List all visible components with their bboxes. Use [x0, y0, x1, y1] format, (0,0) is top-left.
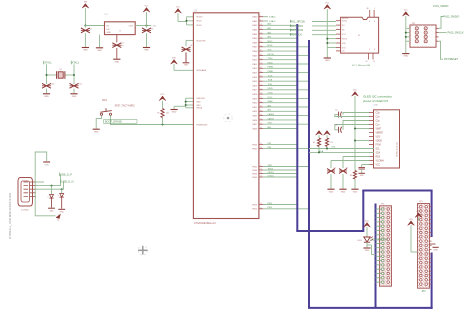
wire net label PA11_NPCS0	[290, 20, 336, 24]
svg-text:MISO: MISO	[268, 41, 273, 43]
power flag above R1	[159, 94, 166, 109]
svg-text:GND: GND	[114, 61, 119, 63]
wire OLED VBAT feed	[354, 128, 370, 130]
wire SDA to OLED	[309, 151, 374, 153]
junction USB D-	[61, 188, 63, 190]
svg-text:C4: C4	[190, 45, 192, 47]
wire VCC rail at OLED	[354, 96, 356, 170]
LED PWR	[358, 221, 374, 248]
JP3 right pin stubs	[422, 207, 432, 293]
svg-text:GND: GND	[83, 50, 88, 52]
svg-text:AD1: AD1	[268, 27, 272, 30]
wire JP1 to SWDIO label	[439, 16, 460, 29]
svg-text:C11: C11	[78, 84, 81, 86]
power flag at IC2	[324, 3, 331, 10]
USB pin stubs	[30, 182, 37, 196]
wire U1 pin row y=25.3 to bus	[263, 23, 297, 26]
net label XTAL2	[71, 61, 79, 65]
wire U1 pin row y=33.9 to bus	[263, 31, 297, 34]
wire net label PA12_MISO	[290, 24, 336, 28]
junction VDD 1	[186, 20, 188, 22]
wire U1 pin row y=29.6 to bus	[263, 27, 297, 30]
junction USB D+	[51, 185, 53, 187]
svg-text:POM: POM	[376, 144, 381, 146]
svg-text:GND: GND	[144, 50, 149, 52]
ground below SW1	[93, 129, 100, 133]
svg-text:VDDC: VDDC	[196, 21, 202, 23]
svg-text:USB_D_N: USB_D_N	[62, 180, 74, 184]
wire U1 pin row y=42.5 to bus	[263, 41, 297, 43]
ground below IC2 rail	[324, 58, 331, 62]
wire U1 group3 row 3	[263, 175, 297, 177]
wire U1 pin row y=81.2 to bus	[263, 79, 309, 82]
connector U30 label	[374, 105, 379, 107]
wire U1 pin row y=38.2 to bus	[263, 36, 297, 39]
svg-text:URXD1: URXD1	[268, 172, 274, 174]
wire XTAL1 drop	[46, 64, 48, 84]
U1 right pin names	[252, 16, 258, 211]
svg-text:XTAL2: XTAL2	[72, 61, 80, 64]
junction JP1 rail 1	[405, 32, 407, 34]
ground below C4	[183, 63, 190, 67]
svg-text:VCC: VCC	[365, 221, 370, 223]
switch SW1 labels	[102, 100, 135, 108]
resistor R1 pullup	[157, 109, 169, 118]
bus box right edge lower	[431, 253, 433, 309]
ground below regulator	[96, 48, 103, 52]
wire VDDANA to pin	[174, 64, 193, 70]
wire regulator GND lead	[99, 35, 101, 48]
wire U1 pin row y=85.5 to bus	[263, 84, 297, 86]
wire PB row 1 to bus1	[263, 143, 297, 145]
resistor R2 pullup SDA	[313, 131, 323, 153]
svg-text:9: 9	[369, 21, 370, 23]
svg-text:5: 5	[369, 49, 370, 51]
svg-text:VDDUTMI: VDDUTMI	[196, 40, 206, 42]
wire U1 pin row y=119.9 to bus	[263, 117, 297, 120]
svg-text:SDA: SDA	[376, 151, 381, 154]
capacitor C2 (tantalum at regulator)	[112, 35, 124, 59]
svg-text:UTXD1: UTXD1	[268, 175, 274, 177]
wire JP1 to SWCLK label	[439, 32, 465, 35]
svg-text:1: 1	[48, 197, 49, 199]
wire VIN to regulator IN	[85, 25, 104, 27]
svg-text:SI/IO0: SI/IO0	[342, 21, 347, 23]
svg-text:VCC: VCC	[161, 94, 166, 96]
svg-text:GND: GND	[72, 96, 77, 98]
svg-text:PWM1: PWM1	[268, 71, 274, 73]
svg-text:VCC: VCC	[404, 10, 409, 12]
wire U1 pin row y=51.1 to bus	[263, 50, 297, 52]
net label +3V3	[152, 26, 156, 28]
wire R1 to reset net	[162, 118, 164, 125]
svg-text:GND: GND	[403, 56, 408, 58]
net label SDA	[319, 150, 324, 153]
zener D1	[48, 186, 54, 208]
junction OUT node	[146, 25, 148, 27]
svg-text:GND: GND	[97, 50, 102, 52]
ground USB shield	[43, 162, 50, 167]
wire U1 group3 row 2	[263, 172, 297, 174]
svg-text:PA22_SWDIO: PA22_SWDIO	[444, 16, 460, 19]
svg-text:PA23_SWCLK: PA23_SWCLK	[448, 32, 465, 35]
svg-text:GND: GND	[365, 250, 370, 252]
zener D2	[58, 189, 64, 208]
svg-text:GND: GND	[353, 191, 358, 193]
ground below C14	[327, 189, 334, 193]
power flag at JP1	[402, 10, 409, 17]
svg-text:AD4: AD4	[268, 104, 272, 107]
wire U1 pin row y=46.8 to bus	[263, 45, 309, 47]
svg-text:PA14_SCK: PA14_SCK	[290, 34, 302, 37]
net label XTAL1	[44, 61, 53, 65]
wire U1 group3 row 1	[263, 168, 297, 170]
svg-text:VDD: VDD	[172, 58, 177, 60]
wire net label PA14_SCK	[290, 33, 336, 37]
microcontroller U1 body	[193, 13, 259, 219]
svg-text:VBAT: VBAT	[376, 127, 382, 130]
wire U1 pin row y=64.0 to bus	[263, 62, 309, 64]
wire USB ID to test point	[35, 177, 55, 216]
svg-text:MOSI: MOSI	[268, 45, 273, 47]
svg-text:TXD0: TXD0	[268, 58, 273, 60]
capacitor C3	[142, 26, 153, 48]
capacitor C14	[327, 161, 336, 189]
svg-text:GPIO: GPIO	[268, 123, 273, 125]
svg-text:PA12_MISO: PA12_MISO	[290, 25, 303, 28]
svg-text:NPCS0: NPCS0	[268, 54, 274, 56]
svg-text:VCC: VCC	[145, 6, 150, 8]
svg-text:GND: GND	[94, 131, 99, 133]
svg-text:GND: GND	[107, 32, 112, 34]
svg-text:RES: RES	[376, 156, 381, 158]
svg-text:R2: R2	[313, 142, 315, 144]
svg-text:UTXD: UTXD	[268, 93, 274, 95]
svg-text:VDDUANA: VDDUANA	[196, 69, 206, 72]
wire USB shield to ground	[35, 152, 47, 177]
svg-text:VCOMH: VCOMH	[376, 160, 385, 162]
ground MCU VSS	[171, 110, 178, 114]
wire VCC riser	[146, 12, 148, 25]
bus A vertical	[296, 24, 298, 231]
svg-text:AD0: AD0	[268, 23, 272, 26]
svg-text:C1: C1	[90, 29, 92, 31]
pin header JP1	[406, 0, 439, 95]
wire PB row 2 to bus2	[263, 147, 309, 149]
bus header1 left rail	[375, 204, 377, 308]
svg-text:pinout of OLED D7: pinout of OLED D7	[363, 99, 389, 103]
net label SCL	[332, 146, 337, 148]
wire U1 pin row y=102.7 to bus	[263, 100, 297, 103]
svg-text:VDDIO: VDDIO	[196, 17, 203, 19]
junction XTAL1/crystal	[46, 74, 48, 76]
microcontroller U1 part name	[194, 222, 216, 225]
svg-text:R3: R3	[331, 142, 333, 144]
wire VSS to ground	[174, 106, 186, 109]
svg-text:TIOA: TIOA	[268, 79, 273, 82]
svg-text:SCL0: SCL0	[268, 97, 273, 99]
svg-text:VSS: VSS	[376, 136, 381, 138]
IC2 bottom pins	[366, 53, 375, 63]
junction XTAL2/crystal	[73, 74, 75, 76]
wire JP1 left rail	[405, 16, 407, 53]
svg-text:GND: GND	[325, 60, 330, 62]
wire VSS pins tie	[186, 98, 194, 108]
svg-text:BOOT_ERASE: BOOT_ERASE	[105, 121, 122, 124]
svg-text:LED1: LED1	[358, 240, 363, 242]
svg-text:VCC: VCC	[353, 90, 358, 92]
svg-text:GND: GND	[50, 210, 55, 212]
svg-text:TWCK: TWCK	[268, 168, 274, 170]
origin marker dot in U1	[224, 114, 232, 122]
svg-text:CANRX: CANRX	[268, 113, 275, 116]
svg-text:XTAL1: XTAL1	[269, 16, 276, 19]
wire JP1 to RESET label	[439, 41, 459, 61]
svg-text:PB14: PB14	[268, 207, 273, 209]
pin header JP3	[418, 102, 430, 313]
capacitor C10	[42, 83, 54, 93]
svg-text:GND: GND	[44, 165, 49, 167]
switch SW1	[100, 108, 112, 115]
svg-text:TWD: TWD	[268, 165, 273, 167]
bus box bottom edge	[308, 307, 433, 309]
ground below C15	[339, 189, 346, 193]
U1 right pin numbers	[260, 15, 262, 209]
svg-text:X:2GB1: X:2GB1	[21, 210, 29, 212]
ground below C10	[43, 94, 50, 98]
svg-text:AD5: AD5	[268, 109, 272, 112]
svg-text:1u: 1u	[121, 45, 123, 47]
ground below C11	[70, 94, 77, 98]
svg-text:GND: GND	[196, 105, 201, 107]
OLED connector U30 body	[369, 110, 400, 168]
wire U1 pin row y=115.6 to bus	[263, 113, 309, 116]
svg-text:Q1: Q1	[59, 69, 62, 71]
wire IC2 supply rail	[326, 9, 328, 57]
wire OLED VCC feed	[362, 164, 370, 166]
svg-text:SPST_TACT-KMR2: SPST_TACT-KMR2	[115, 105, 136, 108]
wire VCC to VDD pins	[178, 13, 187, 21]
svg-text:RXD0: RXD0	[268, 62, 273, 64]
svg-text:C8: C8	[346, 168, 348, 170]
IC2 pin stubs left	[336, 21, 375, 53]
net label USB_D_P	[59, 172, 72, 176]
op-amp U1 label	[194, 11, 198, 13]
junction VSS tie 2	[185, 104, 187, 106]
power flag VIN	[82, 2, 89, 9]
resistor R4	[350, 170, 357, 189]
U1 left pin names	[196, 17, 208, 127]
svg-text:2: 2	[58, 196, 59, 198]
svg-text:GND: GND	[329, 191, 334, 193]
USB part label	[21, 210, 29, 212]
wire U1 pin row y=72.6 to bus	[263, 71, 309, 73]
wire OLED VCOMH feed	[331, 160, 370, 162]
svg-text:SW1: SW1	[102, 100, 108, 102]
svg-text:GND: GND	[44, 96, 49, 98]
wire LED junction to rail	[367, 245, 376, 255]
capacitor C4 at VDDUTMI	[182, 40, 194, 62]
junction VIN node	[84, 25, 86, 27]
svg-text:GND: GND	[433, 249, 438, 251]
svg-text:8: 8	[374, 21, 375, 23]
svg-text:GND: GND	[60, 212, 65, 214]
svg-text:VCC: VCC	[176, 7, 181, 9]
svg-text:VCC: VCC	[417, 211, 422, 213]
wire U1 pin row y=68.3 to bus	[263, 67, 297, 69]
net label USB_D_N	[61, 180, 74, 184]
wire SW1 to reset pin	[111, 115, 194, 124]
origin marker cross	[138, 246, 147, 255]
wire OLED RES feed	[343, 156, 370, 158]
bus A horizontal to box	[296, 230, 363, 232]
svg-text:TIOB: TIOB	[268, 84, 273, 86]
IC2 top pins	[367, 8, 376, 17]
power flag VCC (3V3)	[143, 6, 150, 13]
ground below JP1 rail	[402, 54, 409, 58]
svg-text:C7: C7	[334, 168, 336, 170]
ground below C1	[82, 48, 89, 52]
svg-text:AD0: AD0	[268, 126, 272, 129]
wire OLED VDD feed	[354, 140, 369, 142]
svg-text:GND: GND	[172, 112, 177, 114]
svg-text:4: 4	[374, 49, 375, 51]
svg-text:OUT: OUT	[129, 26, 134, 28]
wire VDD pin bus	[187, 17, 194, 25]
ground below LED	[363, 248, 370, 252]
svg-text:GNDA: GNDA	[196, 107, 202, 110]
svg-text:W: W	[358, 35, 360, 37]
power flag JP3 feed 2	[408, 219, 418, 252]
wire U1 pin row y=55.4 to bus	[263, 54, 309, 56]
wire USB D+ to label	[36, 174, 61, 185]
bus A riser to box top	[362, 191, 364, 233]
svg-text:C3: C3	[151, 29, 153, 31]
wire U1 pin row y=111.3 to bus	[263, 109, 297, 112]
svg-text:PB2: PB2	[268, 143, 272, 145]
svg-text:11: 11	[373, 61, 375, 63]
svg-text:12: 12	[366, 61, 368, 63]
svg-text:C6: C6	[335, 124, 337, 126]
svg-text:AD2: AD2	[268, 31, 272, 34]
wire U1 pin row y=89.8 to bus	[263, 88, 309, 90]
ground below R4	[351, 189, 358, 193]
junction reset/pullup	[162, 124, 164, 126]
wire U1 group3 row 0	[263, 165, 309, 167]
wire IC2 supply to pins	[326, 38, 336, 48]
USB connector X1 body	[18, 178, 33, 207]
note socket text	[370, 237, 389, 241]
wire U1 pin row y=98.4 to bus	[263, 97, 309, 99]
wire VIN riser	[84, 8, 86, 25]
JP2 left pin stubs	[376, 208, 385, 284]
wire SW1 left to ground	[96, 115, 101, 128]
svg-text:PB13: PB13	[268, 203, 273, 205]
svg-text:VCC: VCC	[376, 164, 381, 166]
voltage regulator IC1	[105, 14, 136, 34]
bus B vertical	[308, 40, 310, 308]
svg-text:CANTX: CANTX	[268, 117, 275, 120]
svg-text:R4: R4	[350, 175, 352, 177]
power flag VDDANA	[171, 58, 178, 65]
wire crystal right lead	[66, 74, 75, 76]
pin header JP2	[380, 110, 392, 311]
wire U1 pin row y=76.9 to bus	[263, 75, 297, 77]
junction VSS tie 1	[185, 101, 187, 103]
wire crystal left lead	[47, 74, 57, 76]
ground below C3	[143, 48, 150, 52]
svg-text:GND: GND	[196, 102, 201, 104]
svg-text:PGM/NCMD: PGM/NCMD	[196, 124, 208, 126]
U1 right pin stubs	[259, 17, 263, 209]
wire U1 pin row y=94.1 to bus	[263, 93, 297, 95]
wire U1 pin row y=128.5 to bus	[263, 126, 297, 129]
wire U1 pin row y=107.0 to bus	[263, 104, 309, 107]
svg-text:VSS/VSS: VSS/VSS	[196, 98, 205, 100]
svg-text:PB3: PB3	[268, 147, 272, 149]
svg-text:C10: C10	[51, 84, 54, 86]
svg-text:USB_D_P: USB_D_P	[60, 172, 72, 176]
svg-text:TCLK: TCLK	[268, 75, 274, 77]
svg-text:AD3: AD3	[268, 36, 272, 39]
svg-text:XTAL1: XTAL1	[45, 61, 53, 64]
capacitor C16	[358, 165, 365, 178]
svg-text:SCL: SCL	[376, 148, 381, 150]
capacitor C11	[70, 83, 82, 93]
wire SCL to OLED	[309, 148, 374, 150]
svg-text:VDDC: VDDC	[196, 25, 202, 27]
power flag at OLED	[352, 90, 359, 97]
svg-text:ATSAM4E16EA-AU: ATSAM4E16EA-AU	[194, 222, 216, 225]
svg-text:1: 1	[374, 8, 375, 10]
svg-text:VBREF: VBREF	[376, 132, 384, 134]
power flag VCC at MCU	[175, 7, 182, 14]
wire net label PA13_MOSI	[290, 29, 336, 33]
svg-text:R1: R1	[157, 113, 159, 115]
ground below C2	[113, 59, 120, 63]
svg-text:PWM0: PWM0	[268, 67, 274, 69]
ground below D2	[58, 209, 65, 213]
wire U1 group4 row 1	[263, 203, 297, 205]
svg-text:C5: C5	[335, 110, 337, 112]
capacitor C12 (charge pump top)	[335, 110, 369, 118]
IC2 part name	[352, 64, 370, 67]
svg-text:36: 36	[367, 8, 369, 10]
wire XTAL2 stub and label	[263, 20, 276, 23]
power flag JP3 feed 1	[415, 211, 422, 221]
svg-text:PA13_MOSI: PA13_MOSI	[290, 29, 303, 32]
svg-text:JTAG_SWDIO: JTAG_SWDIO	[433, 5, 449, 8]
svg-text:GYBRALL_USB-MINI-DJCRUF-001: GYBRALL_USB-MINI-DJCRUF-001	[8, 192, 12, 239]
svg-text:OLED_0.96_I2C: OLED_0.96_I2C	[396, 141, 398, 157]
svg-text:HOLD: HOLD	[342, 38, 348, 40]
svg-text:+3V3: +3V3	[152, 26, 156, 28]
svg-text:XTAL2: XTAL2	[269, 20, 276, 23]
USB part name vertical	[8, 192, 12, 239]
bus box top edge	[362, 190, 431, 192]
capacitor C13 (charge pump bottom)	[335, 121, 369, 133]
junction JP1 rail 2	[405, 36, 407, 38]
capacitor C15	[339, 157, 348, 189]
wire regulator OUT	[135, 25, 151, 27]
svg-text:GND: GND	[341, 191, 346, 193]
ground stub JP3	[430, 244, 439, 251]
svg-text:10k: 10k	[166, 113, 169, 115]
memory IC2 body	[341, 17, 379, 53]
net label ERASE on reset wire	[104, 120, 138, 124]
svg-text:IC2 # SB-cent 3-M: IC2 # SB-cent 3-M	[352, 64, 370, 67]
svg-text:VCC: VCC	[325, 3, 330, 5]
